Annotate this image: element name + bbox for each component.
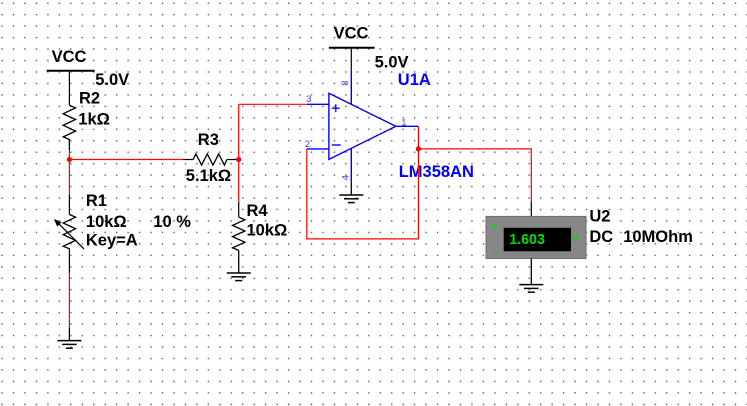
svg-text:R2: R2 (79, 90, 100, 108)
resistor R2 (63, 90, 110, 151)
ground (op-amp) (339, 195, 363, 203)
svg-text:1.603: 1.603 (509, 232, 545, 248)
node J3 (416, 146, 421, 151)
svg-text:8: 8 (340, 80, 351, 85)
svg-text:LM358AN: LM358AN (399, 163, 474, 181)
svg-text:5.1kΩ: 5.1kΩ (186, 167, 231, 185)
svg-text:DC: DC (589, 228, 613, 246)
wire R2 to node J1 (68, 150, 70, 159)
pin 1 stub (396, 125, 419, 127)
wire VCC to R2 (68, 72, 70, 106)
ground (meter) (519, 285, 543, 293)
pin 3 stub (307, 103, 329, 105)
svg-text:R3: R3 (198, 131, 219, 149)
resistor R4 (233, 202, 288, 273)
ground (R1) (57, 328, 81, 349)
wire J1 down to R1 (68, 160, 70, 195)
power VCC (op-amp) (329, 24, 409, 71)
wire to op-amp + input (239, 103, 307, 105)
svg-text:1: 1 (401, 117, 406, 128)
pin 8 stub (350, 70, 352, 105)
feedback wire pin2 to J3 (307, 149, 419, 239)
wire J1 to R3 (69, 159, 183, 161)
resistor R3 (183, 131, 239, 185)
svg-text:U2: U2 (589, 207, 610, 225)
svg-text:Key=A: Key=A (86, 232, 138, 250)
svg-text:R4: R4 (247, 202, 269, 220)
wiper arrow (58, 223, 84, 249)
pin 2 stub (307, 148, 329, 150)
svg-text:10 %: 10 % (153, 213, 191, 231)
wire J2 vertical (238, 104, 240, 202)
svg-text:2: 2 (305, 139, 310, 150)
svg-text:VCC: VCC (52, 48, 87, 66)
wire R1 to ground (68, 273, 70, 328)
node J1 (67, 157, 72, 162)
wire op-amp pin4 to ground (350, 182, 352, 195)
ground (R4) (227, 273, 251, 281)
svg-text:U1A: U1A (398, 71, 431, 89)
op-amp U1A (305, 70, 474, 182)
pin 4 stub (350, 148, 352, 182)
plus marker (332, 107, 340, 109)
wire J3 to multimeter (418, 149, 531, 202)
potentiometer R1 (54, 192, 191, 273)
svg-text:4: 4 (340, 175, 351, 180)
svg-text:3: 3 (306, 94, 311, 105)
svg-text:5.0V: 5.0V (95, 71, 129, 89)
svg-text:5.0V: 5.0V (375, 54, 409, 72)
wire meter to ground (530, 259, 532, 285)
svg-text:V: V (572, 234, 579, 245)
minus marker (332, 144, 341, 146)
power VCC (left rail) (47, 48, 129, 89)
svg-text:10kΩ: 10kΩ (86, 213, 127, 231)
svg-text:1kΩ: 1kΩ (78, 110, 110, 128)
svg-text:10MOhm: 10MOhm (623, 228, 693, 246)
multimeter U2 (486, 207, 693, 258)
svg-text:VCC: VCC (334, 24, 369, 42)
wire VCC to op-amp pin 8 (350, 49, 352, 70)
node J2 (236, 157, 241, 162)
wire output pin1 down to node J3 (417, 126, 419, 149)
wire (meter top stub) (530, 202, 532, 217)
svg-text:R1: R1 (86, 192, 107, 210)
svg-text:10kΩ: 10kΩ (247, 222, 288, 240)
